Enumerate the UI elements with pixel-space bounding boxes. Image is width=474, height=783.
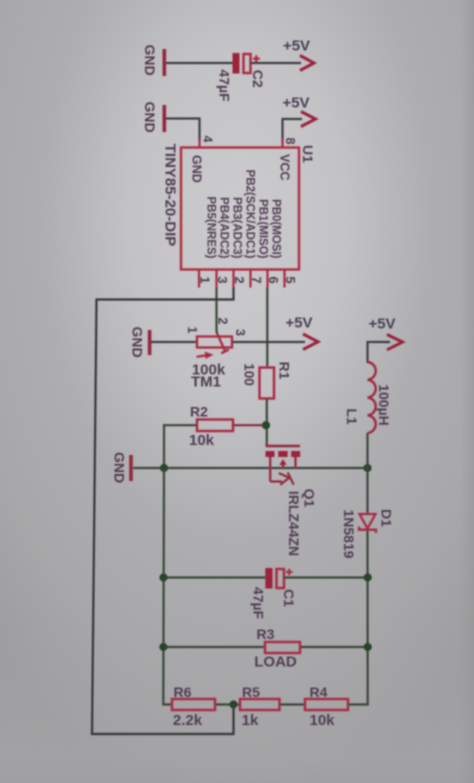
wire	[166, 62, 233, 64]
+5V supply (row 1)	[283, 38, 314, 71]
resistor R4 10k	[305, 684, 348, 729]
wire R5-R4	[280, 703, 306, 705]
+5V supply (row 2)	[282, 95, 315, 127]
resistor R3 LOAD	[254, 626, 300, 671]
wire pin6 down through +5V crossing to R1	[266, 288, 268, 369]
+5V supply (L1)	[368, 316, 402, 350]
op-amp U1 body	[181, 148, 299, 270]
ground GND (row 1)	[142, 44, 166, 76]
inductor L1 100uH	[344, 362, 392, 433]
node R6/R5 junction	[229, 700, 237, 708]
node gate junction	[262, 421, 270, 429]
resistor R1	[242, 362, 293, 399]
ground GND (row 4)	[112, 452, 133, 483]
potentiometer TM1 100k	[185, 318, 247, 391]
node at mid rail	[160, 464, 168, 472]
wire L1 to drain node	[366, 433, 368, 514]
wire	[250, 62, 301, 64]
wire R6-R5	[215, 703, 240, 705]
node	[159, 573, 167, 581]
wire R2 right lead to gate node	[233, 424, 265, 426]
node at right rail	[363, 464, 371, 472]
wire D1 down the right rail to bottom row	[366, 530, 368, 705]
wire	[283, 119, 303, 141]
wire pot pin3 to +5V	[232, 341, 305, 343]
ground GND (row 2)	[142, 101, 166, 132]
wire R1 bottom to gate node	[266, 399, 268, 446]
resistor R5 1k	[240, 684, 280, 729]
wire R4 right to rail	[348, 703, 369, 705]
capacitor C1 47uF	[251, 568, 298, 620]
resistor R2	[189, 404, 233, 450]
pin 8 stub	[281, 139, 283, 148]
capacitor C2 47uF	[217, 53, 267, 102]
ground GND (row 3)	[130, 326, 152, 357]
wire left	[164, 576, 267, 578]
resistor R6 2.2k	[172, 684, 215, 729]
wire pin3 to potentiometer wiper	[215, 288, 218, 335]
wire	[166, 119, 200, 142]
wire mid rail from GND row down to R6 row	[163, 468, 172, 705]
bottom pin stubs with numbers 1 3 2 7 6 5	[199, 270, 285, 288]
wire	[151, 341, 197, 343]
wire left	[163, 646, 265, 648]
node	[364, 573, 372, 581]
wire R2 left lead down to GND row	[164, 425, 197, 467]
diode D1 1N5819	[341, 509, 395, 559]
wire GND row across to right rail	[133, 467, 368, 469]
node	[364, 643, 372, 651]
wire right	[300, 646, 368, 648]
wire right	[283, 576, 368, 578]
+5V supply (row 3)	[285, 315, 318, 350]
pin 4 stub	[198, 139, 200, 148]
node	[159, 643, 167, 651]
wire pin2 left and down the left rail to bottom U	[92, 288, 234, 735]
transistor Q1	[266, 443, 318, 556]
wire +5V corner into L1	[368, 342, 391, 363]
